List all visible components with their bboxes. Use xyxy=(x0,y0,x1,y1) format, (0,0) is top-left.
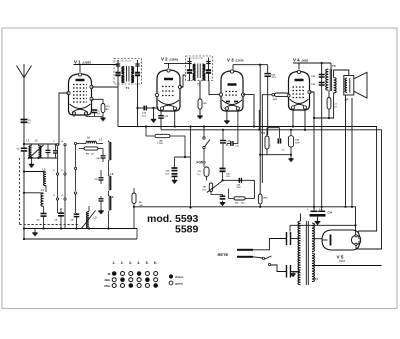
wire T1 to AVC rail xyxy=(117,85,119,127)
resistor R6 xyxy=(132,193,136,204)
resistor R12 xyxy=(275,93,288,96)
capacitor C10b xyxy=(100,196,102,198)
speaker horn xyxy=(354,72,367,98)
tube V1 xyxy=(69,74,92,115)
capacitor C23 xyxy=(319,82,325,84)
wire C21 to R13 xyxy=(267,76,269,135)
wire L7 bottom xyxy=(108,160,110,176)
wire heater bus A xyxy=(118,127,377,232)
svg-text:C10 L10 L11 C11: C10 L10 L11 C11 xyxy=(116,61,132,63)
capacitor C6 xyxy=(61,206,63,213)
antenna xyxy=(17,66,25,78)
svg-text:35W4: 35W4 xyxy=(339,261,346,263)
wire R13 top tap xyxy=(266,128,268,136)
wire C21 drop xyxy=(267,65,269,74)
svg-text:500k: 500k xyxy=(202,190,206,192)
mains plug xyxy=(237,249,253,251)
ground transformer tap xyxy=(293,271,299,273)
wire T3 return to B+ rail xyxy=(314,93,334,118)
legend key xyxy=(169,274,173,278)
capacitor C19 xyxy=(220,168,226,170)
wire heater winding return xyxy=(312,265,382,267)
wire V1 bottom pin xyxy=(73,114,75,118)
svg-text:V 5: V 5 xyxy=(337,255,344,260)
tube V2 xyxy=(157,70,180,111)
svg-text:R8: R8 xyxy=(203,187,205,189)
capacitor C27 xyxy=(286,232,288,245)
wire V1 cathode pin xyxy=(92,98,104,100)
svg-text:C14 L12 L13 C15: C14 L12 L13 C15 xyxy=(187,58,204,60)
svg-text:aperto: aperto xyxy=(175,281,183,285)
resistor R4 xyxy=(155,134,170,137)
capacitor C20 xyxy=(238,178,240,183)
wire V1 top cap to T1 xyxy=(74,64,119,66)
wire V4 heater pin drop xyxy=(304,110,306,130)
wire R13 bottom xyxy=(267,149,291,155)
capacitor C24b xyxy=(279,128,281,136)
capacitor C2 xyxy=(21,147,28,149)
wire V5 base stub xyxy=(358,231,360,234)
electrolytic C24 xyxy=(313,207,315,211)
svg-text:1MΩ: 1MΩ xyxy=(139,205,143,207)
capacitor C7 xyxy=(85,114,87,117)
svg-text:56k: 56k xyxy=(91,154,94,156)
wire V1 grid to antenna coil xyxy=(59,93,69,145)
svg-text:RETE: RETE xyxy=(218,252,229,257)
ground under R3 xyxy=(102,116,104,118)
wire speaker returns xyxy=(345,95,347,207)
resistor R9 xyxy=(234,197,245,200)
svg-text:T1: T1 xyxy=(126,86,130,90)
tube V5 xyxy=(322,230,360,250)
wire main B+ bus xyxy=(134,207,356,236)
wire mains upper xyxy=(253,239,286,250)
wire detector out xyxy=(221,179,223,181)
wire T1 right coil down to C12 xyxy=(137,85,139,127)
svg-text:49m.: 49m. xyxy=(104,278,111,282)
svg-text:M.: M. xyxy=(108,272,111,276)
band switch dashed linkage xyxy=(19,158,21,225)
svg-text:51k: 51k xyxy=(334,106,337,108)
volume pot R8 xyxy=(209,183,212,192)
svg-text:T3: T3 xyxy=(332,64,336,68)
svg-text:som: som xyxy=(334,104,338,106)
coil L9 xyxy=(109,196,112,210)
ground under V2 xyxy=(153,108,155,118)
wire R6 join xyxy=(136,229,138,240)
wire V3 diode drop xyxy=(258,110,260,130)
svg-text:2.7μ: 2.7μ xyxy=(197,174,201,176)
fono switch xyxy=(203,127,205,138)
wire output return xyxy=(262,141,344,143)
wire T3 secondary to speaker xyxy=(334,70,349,78)
electrolytic C25 xyxy=(290,130,292,136)
svg-text:2.2MΩ: 2.2MΩ xyxy=(157,143,163,145)
svg-text:5000: 5000 xyxy=(237,187,241,189)
svg-text:5000: 5000 xyxy=(226,176,230,178)
wire V2 top to T2 xyxy=(164,62,190,64)
capacitor C13 xyxy=(160,110,162,115)
power switch xyxy=(253,257,263,258)
svg-text:6.: 6. xyxy=(154,261,157,265)
ground bottom rail xyxy=(34,229,36,232)
power transformer T4 primary xyxy=(300,214,302,222)
wire antenna lead xyxy=(23,78,25,149)
svg-text:1.: 1. xyxy=(112,261,115,265)
wire AF junction xyxy=(175,156,191,158)
wire bottom rail lower xyxy=(24,238,137,240)
trimmer arrow L2 xyxy=(28,145,44,159)
capacitor C5 xyxy=(43,206,45,213)
svg-text:1MΩ: 1MΩ xyxy=(241,202,246,204)
resistor R5 xyxy=(198,99,202,109)
wire V1 plate to T1 xyxy=(92,86,119,88)
wire V4 top to T3 xyxy=(293,62,331,64)
wire V4 cathode pin drop xyxy=(292,110,294,127)
capacitor C21 xyxy=(264,73,271,75)
resistor R2 xyxy=(84,147,98,150)
ground antenna coil xyxy=(31,158,33,163)
wire coil bottom rail xyxy=(28,157,58,159)
osc switch contacts xyxy=(74,142,76,144)
capacitor C14 xyxy=(174,157,176,168)
svg-text:FONO: FONO xyxy=(197,161,207,165)
wire switch column B xyxy=(64,146,66,173)
ground under V3 xyxy=(226,110,228,119)
ground osc xyxy=(100,204,102,209)
tube V3 xyxy=(221,71,243,111)
wire V3 plate pin drop xyxy=(243,95,254,127)
capacitor C1 xyxy=(21,119,28,121)
capacitor C18 xyxy=(220,195,226,197)
resistor R3 xyxy=(101,104,105,113)
wire R14 bottom xyxy=(328,109,330,118)
resistor R14 xyxy=(327,98,331,110)
wire detector line down xyxy=(259,65,261,194)
capacitor C9 xyxy=(100,170,102,177)
capacitor C3 xyxy=(47,144,49,150)
wire R12 to V4 grid xyxy=(287,94,290,96)
wire secondary to V5 plate xyxy=(312,238,322,240)
svg-text:C24: C24 xyxy=(328,212,333,215)
power transformer core xyxy=(305,221,307,285)
capacitor C22 xyxy=(319,74,325,76)
wire V3 plate line to C21 xyxy=(232,65,234,70)
svg-text:5589: 5589 xyxy=(175,224,199,236)
wire osc switch col xyxy=(75,145,77,168)
trimmer arrow L5 xyxy=(81,211,96,230)
wire HV link xyxy=(290,224,356,226)
capacitor C28 xyxy=(286,265,288,278)
wire bottom rail upper xyxy=(24,228,137,230)
IF transformer T2 xyxy=(186,56,213,81)
speaker AP xyxy=(344,76,354,96)
capacitor C8b xyxy=(76,212,78,215)
svg-text:4.: 4. xyxy=(137,261,140,265)
svg-text:5.: 5. xyxy=(146,261,149,265)
svg-text:chiuso: chiuso xyxy=(175,275,184,279)
wire heater bus B xyxy=(161,130,382,249)
capacitor C12 xyxy=(138,107,145,109)
power transformer secondary xyxy=(312,223,314,252)
capacitor C16 xyxy=(222,130,224,140)
tube V4 xyxy=(289,72,310,111)
svg-text:1MΩ: 1MΩ xyxy=(106,106,110,108)
wire switch column A xyxy=(57,146,59,173)
wire R12 left xyxy=(272,93,275,96)
svg-text:2.: 2. xyxy=(121,261,124,265)
wire mains lower xyxy=(271,265,287,272)
svg-text:41: 41 xyxy=(98,111,100,113)
wire T2 secondary to V3 grid xyxy=(209,81,221,95)
wire R14 top xyxy=(328,91,330,98)
ground filter caps xyxy=(317,217,319,220)
wire B+ rail right xyxy=(310,92,315,207)
wire V2 plate-side pin drop xyxy=(174,110,176,127)
capacitor C4 xyxy=(55,144,57,150)
resistor R10 xyxy=(258,194,262,204)
V5 base xyxy=(351,235,360,244)
IF transformer T1 xyxy=(114,59,142,85)
svg-text:25m.: 25m. xyxy=(104,284,111,288)
wire coil top rail xyxy=(24,143,58,145)
svg-text:20MF: 20MF xyxy=(295,142,301,144)
wire screen bypass drop xyxy=(321,63,323,207)
resistor R13 xyxy=(265,136,269,149)
svg-text:C24: C24 xyxy=(281,150,284,152)
wire C20 down xyxy=(253,180,255,198)
wire V2 plate to T2 xyxy=(180,75,186,87)
capacitor C17 xyxy=(204,167,209,176)
capacitor C8 xyxy=(102,149,104,156)
svg-text:3.: 3. xyxy=(129,261,132,265)
capacitor C15 xyxy=(230,141,232,146)
